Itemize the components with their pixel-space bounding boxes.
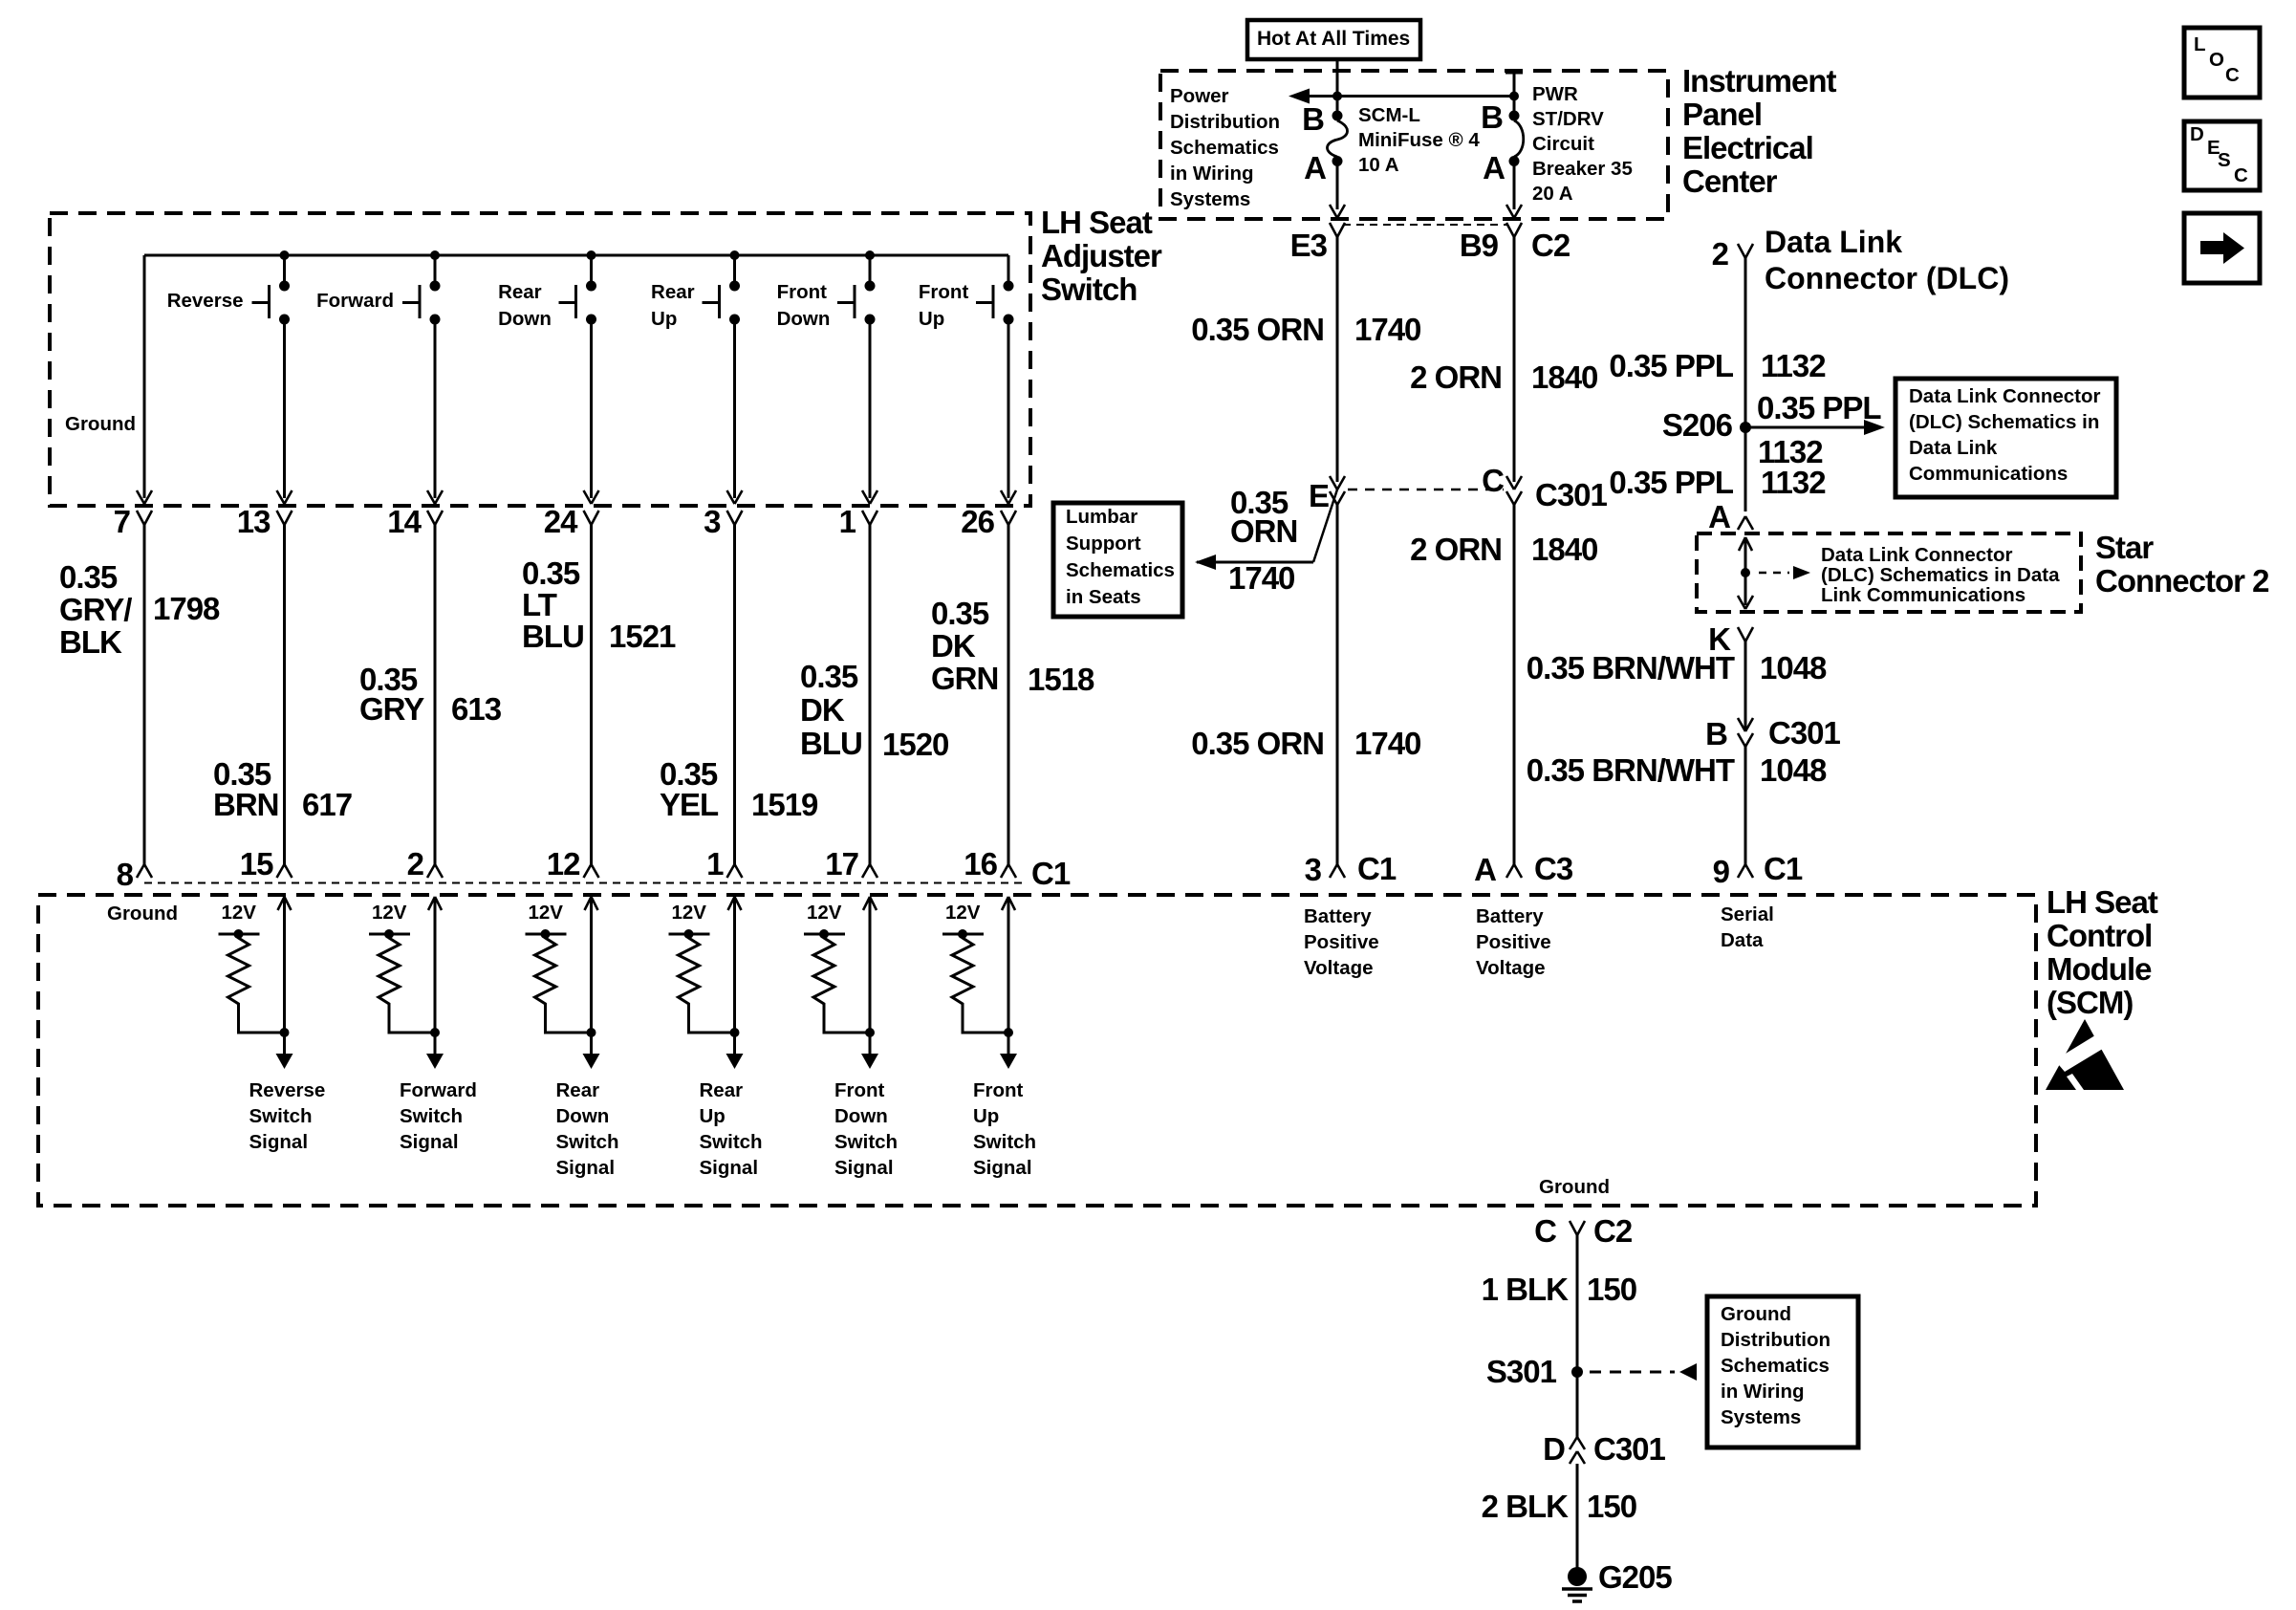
svg-text:D: D xyxy=(1543,1431,1565,1467)
svg-text:Signal: Signal xyxy=(556,1157,616,1179)
svg-text:LH Seat: LH Seat xyxy=(2047,884,2158,920)
svg-text:Battery: Battery xyxy=(1476,905,1544,927)
svg-text:DK: DK xyxy=(931,628,976,664)
svg-text:Data Link: Data Link xyxy=(1909,437,1998,459)
svg-text:Switch: Switch xyxy=(400,1105,463,1127)
svg-text:Down: Down xyxy=(556,1105,610,1127)
svg-text:1840: 1840 xyxy=(1531,532,1597,567)
svg-text:Schematics: Schematics xyxy=(1721,1355,1830,1377)
svg-text:1521: 1521 xyxy=(609,619,676,654)
svg-text:(DLC) Schematics in: (DLC) Schematics in xyxy=(1909,411,2099,433)
svg-text:1740: 1740 xyxy=(1354,312,1420,347)
svg-text:Forward: Forward xyxy=(316,290,394,312)
svg-text:Ground: Ground xyxy=(1539,1176,1610,1198)
svg-text:1132: 1132 xyxy=(1761,348,1826,383)
svg-text:Positive: Positive xyxy=(1304,931,1379,953)
svg-text:2: 2 xyxy=(1712,236,1729,272)
svg-text:Signal: Signal xyxy=(834,1157,894,1179)
svg-text:D: D xyxy=(2190,123,2204,145)
svg-text:0.35 PPL: 0.35 PPL xyxy=(1757,390,1881,425)
svg-text:L: L xyxy=(2194,33,2206,55)
svg-text:Schematics: Schematics xyxy=(1170,137,1279,159)
svg-text:Up: Up xyxy=(651,308,677,330)
svg-text:0.35: 0.35 xyxy=(522,555,580,591)
svg-text:2 ORN: 2 ORN xyxy=(1410,532,1502,567)
svg-text:Data Link: Data Link xyxy=(1765,225,1902,259)
svg-text:3: 3 xyxy=(1305,852,1322,887)
svg-text:E: E xyxy=(1309,478,1329,513)
svg-text:0.35 ORN: 0.35 ORN xyxy=(1191,312,1324,347)
svg-text:C1: C1 xyxy=(1764,851,1803,886)
svg-text:Up: Up xyxy=(700,1105,726,1127)
svg-text:E3: E3 xyxy=(1290,228,1328,263)
svg-text:1520: 1520 xyxy=(882,727,948,762)
svg-text:Instrument: Instrument xyxy=(1682,63,1837,98)
svg-text:Front: Front xyxy=(919,281,969,303)
svg-text:0.35 PPL: 0.35 PPL xyxy=(1609,465,1733,500)
svg-text:A: A xyxy=(1483,150,1505,185)
svg-text:Panel: Panel xyxy=(1682,97,1762,132)
svg-text:1740: 1740 xyxy=(1354,726,1420,761)
svg-text:10 A: 10 A xyxy=(1358,154,1399,176)
svg-text:1: 1 xyxy=(706,846,724,881)
svg-text:Switch: Switch xyxy=(700,1131,763,1153)
svg-text:16: 16 xyxy=(964,846,997,881)
svg-text:Rear: Rear xyxy=(498,281,542,303)
svg-text:Rear: Rear xyxy=(651,281,695,303)
svg-text:C: C xyxy=(2234,164,2248,186)
svg-text:Center: Center xyxy=(1682,163,1778,199)
svg-text:BRN: BRN xyxy=(213,787,279,822)
svg-text:C: C xyxy=(1482,463,1504,498)
svg-text:C: C xyxy=(1534,1213,1556,1249)
svg-text:14: 14 xyxy=(387,504,422,539)
svg-text:LH Seat: LH Seat xyxy=(1041,205,1153,240)
svg-text:Circuit: Circuit xyxy=(1532,133,1594,155)
svg-text:A: A xyxy=(1474,852,1496,887)
svg-text:2 ORN: 2 ORN xyxy=(1410,359,1502,395)
svg-text:Hot At All Times: Hot At All Times xyxy=(1257,28,1410,50)
svg-text:0.35: 0.35 xyxy=(931,596,989,631)
svg-text:Rear: Rear xyxy=(700,1079,744,1101)
svg-text:3: 3 xyxy=(704,504,721,539)
svg-text:S206: S206 xyxy=(1662,407,1733,443)
svg-text:12V: 12V xyxy=(807,902,842,924)
svg-text:Up: Up xyxy=(919,308,944,330)
svg-text:Ground: Ground xyxy=(107,903,178,925)
svg-text:Signal: Signal xyxy=(973,1157,1032,1179)
svg-text:Distribution: Distribution xyxy=(1170,111,1280,133)
svg-text:SCM-L: SCM-L xyxy=(1358,104,1420,126)
svg-text:7: 7 xyxy=(114,504,130,539)
svg-text:Switch: Switch xyxy=(973,1131,1036,1153)
svg-text:in Wiring: in Wiring xyxy=(1170,163,1254,185)
svg-text:Schematics: Schematics xyxy=(1066,559,1175,581)
svg-text:1518: 1518 xyxy=(1028,662,1094,697)
svg-text:Switch: Switch xyxy=(834,1131,898,1153)
svg-text:(DLC) Schematics in Data: (DLC) Schematics in Data xyxy=(1821,564,2060,586)
svg-text:Adjuster: Adjuster xyxy=(1041,238,1162,273)
svg-text:Distribution: Distribution xyxy=(1721,1329,1830,1351)
svg-text:13: 13 xyxy=(237,504,271,539)
svg-text:12V: 12V xyxy=(945,902,981,924)
svg-text:0.35: 0.35 xyxy=(800,659,858,694)
svg-text:GRY: GRY xyxy=(359,691,424,727)
svg-text:MiniFuse ® 4: MiniFuse ® 4 xyxy=(1358,129,1480,151)
svg-text:12V: 12V xyxy=(222,902,257,924)
svg-text:Data: Data xyxy=(1721,929,1764,951)
svg-text:Control: Control xyxy=(2047,918,2152,953)
svg-text:Front: Front xyxy=(777,281,828,303)
svg-text:S301: S301 xyxy=(1486,1354,1557,1389)
svg-text:1048: 1048 xyxy=(1760,752,1827,788)
svg-text:Front: Front xyxy=(834,1079,885,1101)
svg-text:YEL: YEL xyxy=(660,787,719,822)
svg-text:C: C xyxy=(2225,64,2240,86)
svg-text:1798: 1798 xyxy=(153,591,220,626)
svg-text:DK: DK xyxy=(800,692,845,728)
svg-text:Switch: Switch xyxy=(1041,272,1137,307)
svg-text:Data Link Connector: Data Link Connector xyxy=(1821,544,2012,566)
svg-text:Module: Module xyxy=(2047,951,2152,987)
svg-text:1132: 1132 xyxy=(1761,465,1826,500)
svg-text:0.35 BRN/WHT: 0.35 BRN/WHT xyxy=(1527,650,1735,685)
svg-text:1: 1 xyxy=(839,504,856,539)
svg-text:GRY/: GRY/ xyxy=(59,592,132,627)
svg-text:Systems: Systems xyxy=(1721,1406,1801,1428)
svg-text:Lumbar: Lumbar xyxy=(1066,506,1137,528)
svg-text:C301: C301 xyxy=(1593,1431,1666,1467)
svg-text:BLU: BLU xyxy=(800,726,862,761)
svg-text:C3: C3 xyxy=(1534,851,1573,886)
svg-text:G205: G205 xyxy=(1598,1559,1672,1595)
svg-text:Support: Support xyxy=(1066,533,1141,555)
svg-text:2 BLK: 2 BLK xyxy=(1482,1489,1570,1524)
svg-text:1519: 1519 xyxy=(751,787,818,822)
svg-text:Signal: Signal xyxy=(400,1131,459,1153)
svg-text:Signal: Signal xyxy=(249,1131,309,1153)
svg-text:Forward: Forward xyxy=(400,1079,477,1101)
svg-text:12V: 12V xyxy=(372,902,407,924)
svg-text:1 BLK: 1 BLK xyxy=(1482,1272,1570,1307)
svg-text:C1: C1 xyxy=(1357,851,1397,886)
svg-text:12V: 12V xyxy=(529,902,564,924)
svg-text:12: 12 xyxy=(547,846,580,881)
svg-text:in Seats: in Seats xyxy=(1066,586,1141,608)
svg-text:LT: LT xyxy=(522,587,557,622)
svg-text:Voltage: Voltage xyxy=(1476,957,1546,979)
svg-text:BLU: BLU xyxy=(522,619,584,654)
svg-text:Switch: Switch xyxy=(556,1131,619,1153)
svg-text:0.35 ORN: 0.35 ORN xyxy=(1191,726,1324,761)
svg-text:Down: Down xyxy=(498,308,552,330)
svg-text:PWR: PWR xyxy=(1532,83,1578,105)
svg-text:0.35 BRN/WHT: 0.35 BRN/WHT xyxy=(1527,752,1735,788)
svg-text:Systems: Systems xyxy=(1170,188,1250,210)
svg-text:24: 24 xyxy=(544,504,578,539)
svg-text:8: 8 xyxy=(117,857,134,892)
svg-text:1840: 1840 xyxy=(1531,359,1597,395)
svg-text:A: A xyxy=(1304,150,1326,185)
svg-text:Signal: Signal xyxy=(700,1157,759,1179)
svg-text:(SCM): (SCM) xyxy=(2047,985,2133,1020)
svg-text:17: 17 xyxy=(825,846,858,881)
svg-text:150: 150 xyxy=(1587,1489,1636,1524)
svg-text:9: 9 xyxy=(1713,854,1730,889)
svg-text:Rear: Rear xyxy=(556,1079,600,1101)
svg-text:GRN: GRN xyxy=(931,661,998,696)
svg-text:Positive: Positive xyxy=(1476,931,1551,953)
svg-text:Data Link Connector: Data Link Connector xyxy=(1909,385,2100,407)
svg-text:Reverse: Reverse xyxy=(167,290,244,312)
svg-text:26: 26 xyxy=(961,504,994,539)
svg-text:0.35 PPL: 0.35 PPL xyxy=(1609,348,1733,383)
svg-text:Connector (DLC): Connector (DLC) xyxy=(1765,261,2009,295)
svg-text:C301: C301 xyxy=(1535,477,1608,512)
svg-text:ST/DRV: ST/DRV xyxy=(1532,108,1604,130)
svg-text:Communications: Communications xyxy=(1909,463,2068,485)
svg-text:A: A xyxy=(1708,499,1730,534)
svg-text:Voltage: Voltage xyxy=(1304,957,1374,979)
svg-text:0.35: 0.35 xyxy=(59,559,118,595)
svg-text:B9: B9 xyxy=(1460,228,1499,263)
svg-text:617: 617 xyxy=(302,787,352,822)
svg-text:2: 2 xyxy=(407,846,424,881)
svg-text:1740: 1740 xyxy=(1228,560,1294,596)
svg-text:Reverse: Reverse xyxy=(249,1079,326,1101)
svg-text:B: B xyxy=(1302,101,1324,137)
svg-text:Down: Down xyxy=(777,308,831,330)
svg-text:Down: Down xyxy=(834,1105,888,1127)
svg-text:Serial: Serial xyxy=(1721,903,1774,925)
svg-text:in Wiring: in Wiring xyxy=(1721,1381,1805,1403)
svg-text:613: 613 xyxy=(451,691,502,727)
svg-text:Power: Power xyxy=(1170,85,1229,107)
svg-text:20 A: 20 A xyxy=(1532,183,1573,205)
svg-text:S: S xyxy=(2218,149,2231,171)
svg-text:BLK: BLK xyxy=(59,624,122,660)
svg-text:Ground: Ground xyxy=(65,413,136,435)
svg-text:O: O xyxy=(2209,49,2224,71)
svg-text:ORN: ORN xyxy=(1230,513,1297,549)
svg-text:12V: 12V xyxy=(672,902,707,924)
svg-text:Star: Star xyxy=(2095,530,2154,565)
svg-text:15: 15 xyxy=(240,846,273,881)
svg-text:C2: C2 xyxy=(1593,1213,1633,1249)
svg-text:Switch: Switch xyxy=(249,1105,313,1127)
svg-text:150: 150 xyxy=(1587,1272,1636,1307)
svg-text:B: B xyxy=(1481,99,1503,135)
svg-text:C2: C2 xyxy=(1531,228,1570,263)
svg-text:C301: C301 xyxy=(1768,715,1841,751)
svg-text:1048: 1048 xyxy=(1760,650,1827,685)
svg-text:Up: Up xyxy=(973,1105,999,1127)
svg-text:Ground: Ground xyxy=(1721,1303,1791,1325)
svg-text:Connector 2: Connector 2 xyxy=(2095,563,2269,598)
svg-text:C1: C1 xyxy=(1031,856,1071,891)
svg-text:Breaker 35: Breaker 35 xyxy=(1532,158,1633,180)
svg-text:Battery: Battery xyxy=(1304,905,1372,927)
svg-text:Electrical: Electrical xyxy=(1682,130,1813,165)
svg-text:Front: Front xyxy=(973,1079,1024,1101)
svg-text:B: B xyxy=(1705,716,1727,751)
svg-text:Link Communications: Link Communications xyxy=(1821,584,2025,606)
